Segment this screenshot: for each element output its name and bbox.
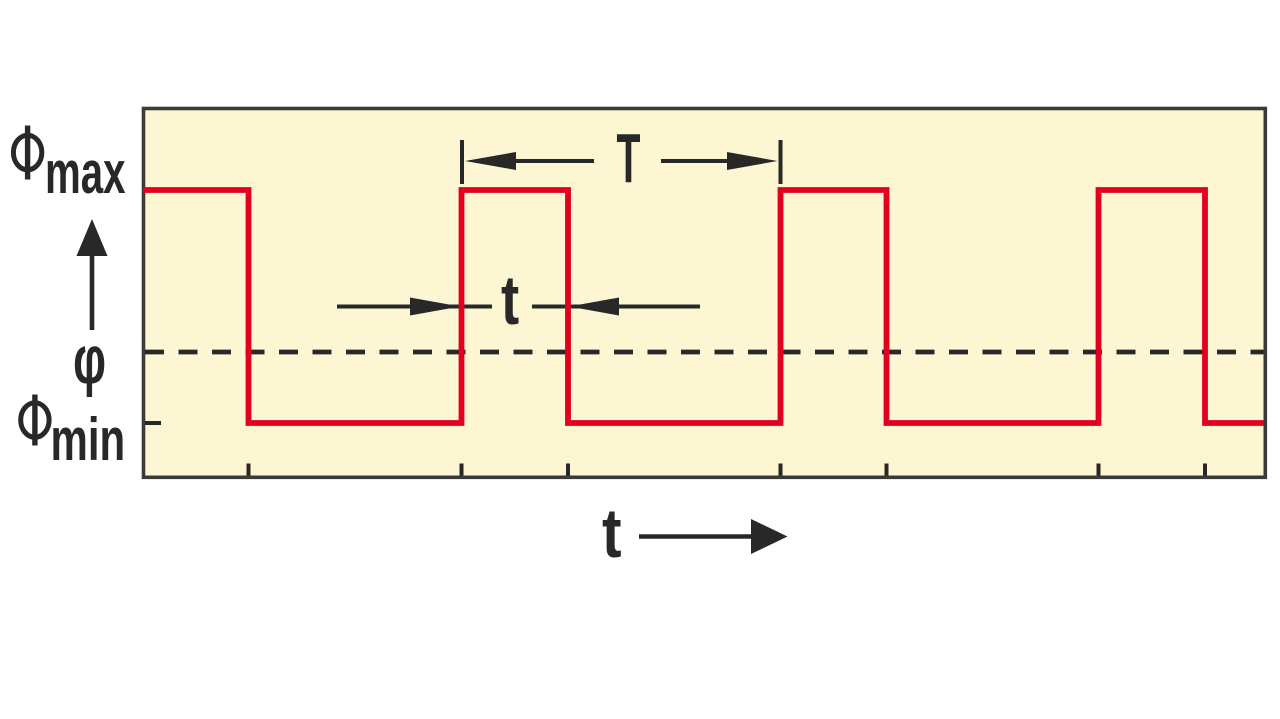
svg-text:max: max (45, 139, 126, 206)
svg-text:T: T (617, 120, 641, 198)
svg-text:φ: φ (73, 322, 106, 398)
svg-text:t: t (602, 493, 622, 572)
svg-text:min: min (51, 406, 126, 473)
T dimension right arrow (661, 159, 733, 163)
dashed phi level line (145, 350, 1264, 355)
vertical phi axis arrow (90, 253, 95, 330)
plot box background (144, 109, 1266, 478)
T dimension left arrow (509, 159, 594, 163)
axis tick Phi-min on left border (145, 421, 161, 425)
T dimension ticks (460, 140, 464, 184)
label Phi-min (custom glyph) (21, 395, 49, 446)
red square wave (143, 190, 1264, 423)
t dimension right line+arrow (points left at falling edge) (532, 305, 700, 309)
svg-text:t: t (501, 262, 519, 340)
label Phi-max (custom glyph) (13, 126, 41, 180)
bottom time axis arrow (639, 534, 758, 539)
bottom ticks at wave transitions (249, 464, 1206, 476)
t dimension left line+arrow (points right at rising edge) (337, 305, 492, 309)
